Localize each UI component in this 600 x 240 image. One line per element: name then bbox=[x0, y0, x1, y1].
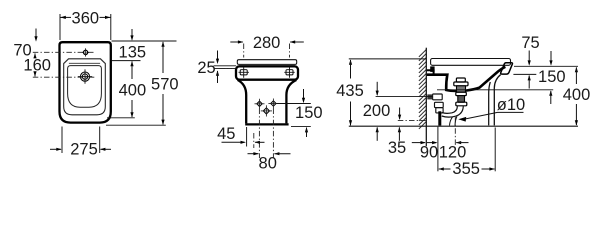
svg-text:25: 25 bbox=[197, 59, 215, 77]
svg-text:400: 400 bbox=[563, 86, 591, 104]
svg-text:ø10: ø10 bbox=[497, 96, 525, 114]
svg-text:75: 75 bbox=[521, 34, 539, 52]
svg-text:355: 355 bbox=[452, 160, 480, 178]
svg-text:150: 150 bbox=[295, 104, 323, 122]
svg-text:360: 360 bbox=[72, 9, 100, 27]
svg-text:400: 400 bbox=[119, 81, 147, 99]
svg-text:275: 275 bbox=[70, 141, 98, 159]
svg-text:160: 160 bbox=[23, 56, 51, 74]
svg-text:280: 280 bbox=[253, 34, 281, 52]
svg-text:90: 90 bbox=[420, 144, 438, 162]
svg-text:35: 35 bbox=[388, 139, 406, 157]
svg-text:570: 570 bbox=[151, 75, 179, 93]
svg-text:135: 135 bbox=[119, 43, 147, 61]
svg-text:45: 45 bbox=[217, 125, 235, 143]
svg-text:80: 80 bbox=[259, 154, 277, 172]
svg-text:200: 200 bbox=[363, 102, 391, 120]
svg-text:120: 120 bbox=[439, 144, 467, 162]
svg-text:435: 435 bbox=[336, 82, 364, 100]
svg-text:150: 150 bbox=[538, 68, 566, 86]
